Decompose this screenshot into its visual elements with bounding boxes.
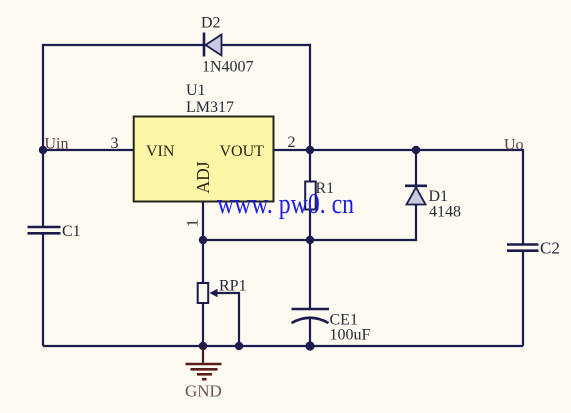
capacitor C2: [507, 245, 539, 251]
svg-text:VOUT: VOUT: [220, 143, 265, 160]
ground GND symbol: [186, 346, 222, 379]
svg-text:RP1: RP1: [219, 278, 247, 295]
capacitor CE1: [292, 309, 330, 323]
svg-text:1N4007: 1N4007: [202, 59, 254, 76]
svg-text:1: 1: [185, 219, 202, 227]
wire RP1 bottom lead: [202, 303, 204, 346]
node VOUT R1 junction: [306, 146, 314, 154]
svg-text:LM317: LM317: [186, 99, 234, 116]
svg-text:GND: GND: [185, 382, 222, 401]
wire left input rail vertical upper: [42, 44, 44, 227]
IC U1 LM317 body: [134, 117, 274, 202]
wire top rail left segment: [43, 44, 203, 46]
wire D1 cathode lead: [415, 150, 417, 186]
svg-text:Uin: Uin: [45, 136, 69, 153]
wire ADJ pin 1 lead: [202, 202, 204, 284]
wire R1 bottom lead: [309, 210, 311, 241]
diode D1: [405, 186, 427, 205]
node Uin junction: [39, 146, 47, 154]
wire D1 anode lead: [415, 205, 417, 242]
svg-text:U1: U1: [186, 82, 206, 99]
capacitor C1: [28, 227, 61, 233]
svg-text:3: 3: [111, 135, 119, 152]
wire left input rail vertical lower: [42, 234, 44, 346]
node VOUT D1 junction: [412, 146, 420, 154]
node ADJ branch ground junction: [199, 342, 207, 350]
wire R1 top lead: [309, 150, 311, 182]
svg-text:D2: D2: [201, 15, 221, 32]
wire ADJ feedback rail: [203, 239, 416, 241]
node R1 ADJ junction: [306, 236, 314, 244]
node ADJ junction: [199, 236, 207, 244]
wire VOUT pin to output rail: [273, 149, 523, 151]
resistor R1: [305, 182, 316, 210]
svg-text:www. pw0. cn: www. pw0. cn: [217, 189, 354, 220]
diode D2: [204, 33, 222, 57]
wire CE1 top lead: [309, 240, 311, 309]
wire RP1 wiper arm drop: [238, 292, 240, 346]
wire Uin to VIN pin 3: [43, 149, 134, 151]
svg-text:100uF: 100uF: [330, 327, 371, 344]
wire vertical drop from top rail to VOUT net: [309, 44, 311, 150]
svg-text:Uo: Uo: [504, 137, 524, 154]
svg-text:C2: C2: [540, 239, 560, 258]
wire CE1 bottom lead: [309, 318, 311, 346]
wire bottom ground rail: [43, 345, 523, 347]
wire output rail vertical lower: [522, 251, 524, 346]
node wiper ground junction: [235, 342, 243, 350]
svg-text:VIN: VIN: [146, 143, 175, 160]
wire output rail vertical upper: [522, 149, 524, 244]
wire top rail right segment: [221, 44, 311, 46]
node CE1 ground junction: [305, 341, 314, 350]
svg-text:D1: D1: [429, 188, 449, 205]
svg-text:C1: C1: [62, 223, 81, 240]
svg-text:4148: 4148: [429, 204, 461, 221]
svg-text:ADJ: ADJ: [193, 161, 213, 193]
svg-text:2: 2: [288, 134, 296, 151]
potentiometer RP1: [198, 283, 239, 303]
